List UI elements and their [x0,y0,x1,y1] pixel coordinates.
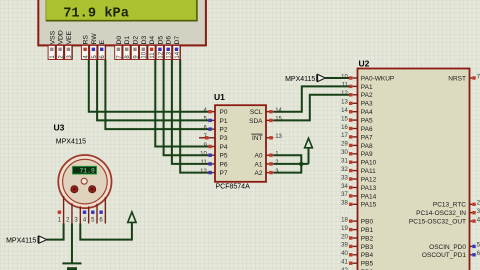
svg-text:VDD: VDD [58,30,65,44]
svg-text:U3: U3 [54,123,65,133]
power terminal VCC at U1 [305,138,313,148]
svg-text:MPX4115: MPX4115 [6,238,36,245]
LCD pin 1 (VSS) [48,30,56,59]
U2 pin 14 (PA4) [341,108,373,116]
svg-text:D4: D4 [149,36,156,45]
U1 pin 7 (P3) [199,134,228,142]
LCD pin 9 (D2) [131,36,139,60]
svg-text:A2: A2 [255,170,263,177]
U2 pin 3 (PC14-OSC32_IN) [416,209,480,217]
U2 pin 18 (PB0) [341,217,373,225]
svg-text:19: 19 [341,226,348,232]
U2 pin 30 (PA9) [341,150,373,158]
svg-text:RS: RS [83,35,90,45]
U2 pin 17 (PA7) [341,133,373,141]
LCD pin 4 (RS) [81,35,89,60]
U3 port hole [81,178,87,184]
LCD pin 5 (RW) [90,33,98,60]
svg-text:NRST: NRST [448,75,466,82]
svg-text:D0: D0 [116,36,123,45]
U2 pin 33 (PA12) [341,175,376,183]
svg-text:PA5: PA5 [361,118,373,125]
wire D7 to U1 P7 [180,60,209,173]
svg-text:PB4: PB4 [361,252,374,259]
U1 pin 9 (P4) [203,143,227,151]
U1 pin 2 (A1) [255,160,280,168]
svg-text:12: 12 [158,51,164,58]
U1 pin 4 (P0) [203,108,227,116]
svg-text:37: 37 [341,192,348,198]
U2 pin 19 (PB1) [341,226,373,234]
svg-text:P7: P7 [220,170,228,177]
U2 pin 5 (OSCIN_PD0) [429,243,480,251]
U3 pin 2 [66,203,72,223]
svg-text:PA0-WKUP: PA0-WKUP [361,75,394,82]
U1 pin 11 (P6) [201,160,228,168]
svg-text:PB1: PB1 [361,227,374,234]
svg-text:SCL: SCL [250,109,263,116]
wire D6 to U1 P6 [172,60,209,164]
wire U1 A1 to power [273,163,308,165]
svg-text:D6: D6 [166,36,173,45]
U1 pin 14 (SCL) [250,108,283,116]
LCD pin 7 (D0) [115,36,123,60]
power terminal VCC at U3 [128,212,136,223]
svg-text:18: 18 [341,217,348,223]
svg-text:PA10: PA10 [361,160,377,167]
svg-text:PA3: PA3 [361,101,373,108]
U2 pin 31 (PA10) [341,159,376,167]
svg-text:D3: D3 [141,36,148,45]
svg-text:PA6: PA6 [361,126,373,133]
svg-text:PA7: PA7 [361,134,373,141]
wire U3 pin3 to power [80,222,132,239]
ground symbol [62,263,81,270]
svg-text:11: 11 [342,83,349,89]
svg-text:E: E [99,40,106,45]
LCD pin 8 (D1) [123,36,131,60]
input terminal MPX4115 (from U3 pin1) [6,236,47,245]
U2 pin 20 (PB2) [341,234,373,242]
wire U1 SDA to U2 PA2 [273,95,349,121]
U2 pin 38 (PA15) [341,201,376,209]
svg-text:PA13: PA13 [361,185,377,192]
svg-text:PB2: PB2 [361,235,374,242]
U3 outer ring [58,155,111,208]
U2 pin 10 (PA0-WKUP) [341,74,394,82]
svg-text:P1: P1 [220,118,228,125]
U3 pressure readout 71.9 [72,166,96,174]
U3 pin 4 [83,206,89,223]
svg-text:40: 40 [341,251,348,257]
U1 pin 3 (A2) [255,169,280,177]
svg-text:32: 32 [341,167,348,173]
U2 pin 2 (PC13_RTC) [433,201,480,209]
svg-text:D1: D1 [124,36,131,45]
LCD display LCD1 body [38,0,206,45]
U2 pin 34 (PA13) [341,184,376,192]
svg-text:P6: P6 [220,161,228,168]
LCD green screen [46,0,197,21]
wire E to U1 P2 [105,60,209,130]
svg-text:17: 17 [341,133,348,139]
wire U1 A0 to A1 bus [273,155,301,164]
svg-text:41: 41 [341,260,348,266]
U2 pin 40 (PB4) [341,251,373,259]
svg-text:U2: U2 [359,59,370,69]
svg-text:P5: P5 [220,153,228,160]
U2 pin 42 (PB6) [341,268,373,270]
LCD pin 6 (E) [98,40,106,60]
svg-text:P0: P0 [220,109,228,116]
svg-text:PA2: PA2 [361,92,373,99]
svg-text:29: 29 [341,142,348,148]
svg-text:MPX4115: MPX4115 [56,139,86,146]
svg-text:INT: INT [252,135,263,142]
svg-text:30: 30 [341,150,348,156]
svg-text:PA8: PA8 [361,143,373,150]
U3 pin 6 [99,197,105,223]
svg-text:13: 13 [341,100,348,106]
LCD pin 12 (D5) [156,36,164,60]
svg-text:A0: A0 [255,153,263,160]
wire U1 SCL to U2 PA1 [273,86,349,111]
U2 pin 12 (PA2) [341,91,373,99]
LCD pin 11 (D4) [148,36,156,60]
U3 inner disc [63,159,108,204]
U2 pin 7 (NRST) [448,74,480,82]
U2 pin 6 (OSCOUT_PD1) [422,251,480,259]
svg-text:71.9 kPa: 71.9 kPa [63,6,129,21]
svg-text:11: 11 [201,160,208,166]
LCD pin 13 (D6) [165,36,173,60]
svg-text:PA4: PA4 [361,109,373,116]
U2 pin 29 (PA8) [341,142,373,150]
LCD pin 3 (VEE) [65,30,73,59]
svg-text:PA15: PA15 [361,202,377,209]
wire D5 to U1 P5 [164,60,209,156]
svg-text:A1: A1 [255,161,263,168]
wire U3 pin2 to ground [71,224,73,264]
svg-text:33: 33 [341,175,348,181]
svg-text:12: 12 [341,91,348,97]
svg-text:OSCIN_PD0: OSCIN_PD0 [429,244,466,251]
wire RS to U1 P0 [89,60,209,112]
svg-text:PC14-OSC32_IN: PC14-OSC32_IN [416,210,466,217]
U1 pin 13 (INT) [251,134,282,142]
svg-text:PB0: PB0 [361,219,374,226]
svg-text:13: 13 [275,134,282,140]
svg-text:SDA: SDA [249,118,263,125]
U3 pin 3 [74,206,80,223]
svg-text:31: 31 [341,159,348,165]
svg-text:P2: P2 [220,127,228,134]
U3 pin dot right [89,186,96,193]
svg-text:U1: U1 [214,92,225,102]
U2 pin 39 (PB3) [341,243,373,251]
junction A0-A1-A2 [299,162,303,166]
U2 pin 15 (PA5) [341,116,373,124]
U2 pin 11 (PA1) [342,83,373,91]
U1 pin 5 (P1) [203,117,227,125]
svg-text:OSCOUT_PD1: OSCOUT_PD1 [422,252,466,259]
svg-text:PC13_RTC: PC13_RTC [433,202,466,209]
svg-text:38: 38 [341,201,348,207]
svg-text:PA12: PA12 [361,176,377,183]
svg-text:14: 14 [341,108,348,114]
U1 pin 6 (P2) [203,125,227,133]
input terminal MPX4115 (to U2 PA0) [285,74,325,83]
svg-text:34: 34 [341,184,348,190]
U1 pin 10 (P5) [200,152,228,160]
svg-text:P3: P3 [220,135,228,142]
svg-text:14: 14 [275,108,282,114]
svg-text:11: 11 [150,52,156,59]
wire U1 A2 to A1 bus [273,164,301,173]
U1 pin 15 (SDA) [249,117,282,125]
svg-text:12: 12 [200,169,207,175]
svg-text:P4: P4 [220,144,228,151]
wire U3 pin1 to MPX4115 terminal [47,224,64,240]
svg-text:16: 16 [341,125,348,131]
U2 pin 41 (PB5) [341,260,373,268]
svg-text:RW: RW [91,33,98,45]
svg-text:D2: D2 [133,36,140,45]
svg-text:VSS: VSS [49,30,56,44]
svg-text:15: 15 [341,116,348,122]
LCD pin 14 (D7) [173,36,181,60]
LCD pin 2 (VDD) [56,30,64,59]
U1 pin 12 (P7) [200,169,228,177]
svg-text:PB3: PB3 [361,244,374,251]
svg-text:PA11: PA11 [361,168,376,175]
wire D4 to U1 P4 [155,60,209,147]
svg-text:10: 10 [200,152,207,158]
svg-text:PCF8574A: PCF8574A [216,183,251,190]
U2 pin 13 (PA3) [341,100,373,108]
U3 pin 5 [91,204,97,224]
svg-text:10: 10 [142,51,148,58]
svg-text:14: 14 [175,51,181,58]
svg-text:MPX4115: MPX4115 [285,76,315,83]
U2 pin 4 (PC15-OSC32_OUT) [409,217,480,225]
svg-text:10: 10 [341,74,348,80]
svg-text:PA1: PA1 [361,84,373,91]
svg-text:D7: D7 [174,36,181,45]
svg-text:13: 13 [167,51,173,58]
svg-text:PA14: PA14 [361,193,377,200]
U3 pin dot left [71,186,78,193]
svg-text:D5: D5 [157,36,164,45]
svg-text:PC15-OSC32_OUT: PC15-OSC32_OUT [409,219,466,226]
U2 pin 32 (PA11) [341,167,376,175]
wire RW to U1 P1 [97,60,209,121]
U1 pin 1 (A0) [255,152,280,160]
IC U2 STM32 body [358,69,470,270]
svg-text:39: 39 [341,243,348,249]
svg-text:20: 20 [341,234,348,240]
IC U1 PCF8574A body [215,105,266,182]
LCD pin 10 (D3) [140,36,148,60]
svg-text:71.9: 71.9 [79,168,95,175]
U2 pin 37 (PA14) [341,192,376,200]
wire MPX4115 terminal to U2 PA0 [325,77,349,79]
svg-text:PA9: PA9 [361,151,373,158]
svg-text:PB5: PB5 [361,261,374,268]
svg-text:15: 15 [275,117,282,123]
svg-text:VEE: VEE [66,30,73,44]
U2 pin 16 (PA6) [341,125,373,133]
wire junction to power arrow [308,148,310,164]
U3 pin 1 [58,196,64,224]
